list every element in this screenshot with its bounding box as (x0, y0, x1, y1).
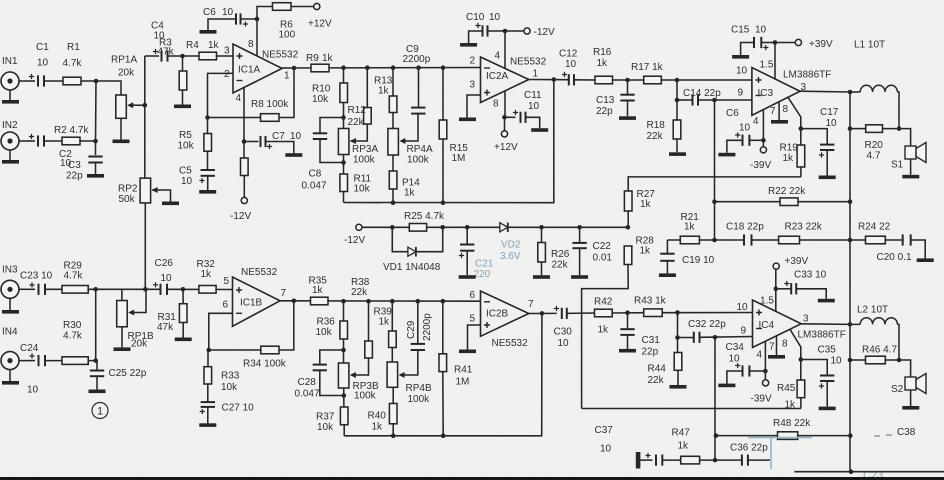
capacitor C12 (569, 74, 574, 85)
svg-text:R47: R47 (672, 428, 691, 439)
dash marks (874, 435, 892, 436)
wire (468, 325, 481, 350)
svg-text:3.6V: 3.6V (500, 251, 521, 262)
junction node (440, 225, 445, 230)
minus input mark (484, 301, 490, 303)
svg-text:C33 10: C33 10 (794, 270, 827, 281)
potentiometer RP4B (387, 362, 398, 387)
resistor R42 (595, 309, 613, 317)
junction node (205, 115, 210, 120)
junction node (675, 335, 680, 340)
wire RP4A wiper (402, 115, 418, 142)
wire (627, 80, 629, 94)
svg-text:-39V: -39V (750, 160, 771, 171)
svg-text:+12V: +12V (308, 19, 332, 30)
polarity + of C1 (29, 74, 34, 79)
svg-text:R12: R12 (348, 105, 367, 116)
wire (182, 90, 184, 105)
inductor L1 (860, 85, 897, 92)
wire (504, 91, 506, 117)
resistor R35 (311, 297, 329, 305)
wire (466, 227, 468, 244)
wire (700, 459, 742, 461)
svg-text:1k: 1k (783, 153, 795, 164)
wire pin9 row (698, 99, 752, 101)
capacitor C27 (201, 402, 215, 407)
wire (776, 336, 778, 355)
svg-text:C18 22p: C18 22p (726, 222, 764, 233)
wire (613, 79, 644, 81)
svg-text:5: 5 (470, 314, 476, 325)
junction node (341, 299, 346, 304)
svg-text:IN3: IN3 (2, 265, 18, 276)
junction node (552, 77, 557, 82)
connector IN4 (1, 352, 19, 370)
svg-text:1k: 1k (597, 58, 609, 69)
resistor R9 (311, 64, 329, 72)
ground (902, 175, 919, 179)
svg-text:C37: C37 (595, 425, 614, 436)
svg-text:R40: R40 (368, 411, 387, 422)
capacitor C31 (620, 329, 634, 335)
svg-text:R18: R18 (647, 120, 666, 131)
resistor R24 (866, 236, 886, 244)
resistor R43 (644, 309, 663, 317)
wire (121, 289, 123, 300)
terminal -12V (241, 197, 247, 203)
junction node (848, 322, 853, 327)
wire feedback column (714, 100, 716, 240)
terminal +39V (773, 263, 779, 269)
plus input mark (484, 322, 490, 328)
svg-text:C22: C22 (593, 241, 612, 252)
power amp IC4 (753, 300, 802, 348)
svg-text:C13: C13 (596, 95, 615, 106)
ground (819, 176, 836, 180)
ground (819, 407, 836, 411)
power amp IC3 (752, 68, 800, 116)
capacitor C18 (744, 234, 752, 245)
wire (796, 289, 826, 299)
op-amp IC1A (233, 44, 282, 93)
wire (627, 101, 629, 117)
ground (2, 160, 19, 164)
ground (571, 275, 588, 279)
ground (2, 310, 19, 314)
svg-text:1k: 1k (379, 317, 391, 328)
svg-text:2200p: 2200p (422, 313, 433, 341)
ground (200, 30, 217, 34)
svg-text:IN4: IN4 (2, 327, 18, 338)
svg-text:0.01: 0.01 (593, 253, 613, 264)
svg-text:IN2: IN2 (2, 120, 18, 131)
svg-text:1: 1 (284, 71, 290, 82)
potentiometer RP2 (140, 178, 151, 203)
capacitor C37 (656, 455, 662, 466)
svg-text:C17: C17 (820, 107, 839, 118)
junction node (540, 311, 545, 316)
capacitor C32 (694, 332, 700, 343)
wire (256, 19, 258, 56)
svg-text:LM3886TF: LM3886TF (783, 70, 831, 81)
ground (533, 275, 550, 279)
potentiometer RP3A (338, 129, 349, 155)
svg-text:RP3A: RP3A (352, 144, 378, 155)
svg-text:+12V: +12V (494, 142, 518, 153)
resistor R32 (199, 286, 216, 294)
wire (442, 68, 444, 120)
wire (801, 323, 851, 326)
ground (174, 105, 191, 109)
svg-text:C30: C30 (554, 327, 573, 338)
capacitor C8 (313, 133, 327, 139)
resistor R41 (439, 354, 447, 372)
junction node (390, 299, 395, 304)
wire (343, 425, 345, 436)
wire (661, 79, 752, 81)
resistor R20 (866, 125, 883, 133)
svg-text:6: 6 (223, 300, 229, 311)
ground (531, 128, 548, 132)
terminal +12V (314, 3, 320, 9)
svg-text:22p: 22p (596, 106, 613, 117)
resistor R17 (644, 76, 662, 84)
svg-text:R30: R30 (63, 320, 82, 331)
resistor R7 (241, 158, 249, 176)
svg-text:C15: C15 (731, 25, 750, 36)
wire (207, 118, 209, 134)
svg-text:1k: 1k (312, 285, 324, 296)
wire (749, 370, 765, 372)
junction node (712, 98, 717, 103)
resistor R4 (199, 52, 217, 60)
junction node (849, 469, 854, 474)
svg-text:C14 22p: C14 22p (683, 88, 721, 99)
capacitor C34 (743, 365, 750, 376)
junction node (341, 65, 346, 70)
ground (917, 258, 934, 262)
svg-text:10k: 10k (221, 382, 238, 393)
svg-text:8: 8 (783, 104, 789, 115)
junction node (242, 139, 247, 144)
resistor R3 (179, 71, 187, 90)
capacitor C7 (261, 136, 266, 147)
svg-text:C35: C35 (818, 345, 837, 356)
svg-text:-12V: -12V (534, 27, 555, 38)
svg-text:C3: C3 (68, 160, 81, 171)
junction node (675, 78, 680, 83)
svg-text:C11: C11 (524, 90, 542, 101)
resistor R2 (62, 137, 80, 145)
polarity + of C26 (153, 282, 158, 287)
svg-text:22k: 22k (647, 131, 664, 142)
svg-text:R20: R20 (865, 140, 884, 151)
wire blue artifact (770, 438, 772, 470)
wire (351, 358, 369, 375)
ground (459, 275, 476, 279)
junction node (93, 358, 98, 363)
capacitor C13 (620, 95, 634, 101)
ground (768, 355, 785, 359)
wire RP1B wiper (130, 289, 146, 312)
svg-text:C32 22p: C32 22p (688, 319, 726, 330)
svg-text:R46 4.7: R46 4.7 (862, 345, 897, 356)
wire (800, 90, 850, 93)
svg-text:L1 10T: L1 10T (854, 40, 885, 51)
wire (19, 288, 35, 290)
polarity + of C23 (29, 282, 34, 287)
svg-text:S2: S2 (891, 384, 904, 395)
svg-text:C1: C1 (36, 42, 49, 53)
svg-text:100: 100 (279, 30, 296, 41)
junction node (897, 126, 902, 131)
wire (676, 80, 678, 100)
potentiometer RP3B (338, 363, 349, 388)
ground (459, 350, 476, 354)
wire (208, 19, 236, 30)
wire (850, 91, 860, 93)
svg-text:C8: C8 (309, 169, 322, 180)
wire (392, 189, 394, 203)
svg-text:10: 10 (558, 338, 570, 349)
junction node (365, 65, 370, 70)
connector IN3 (1, 280, 19, 298)
resistor R38 (365, 341, 373, 358)
svg-text:R8 100k: R8 100k (251, 99, 289, 110)
wire (541, 262, 543, 275)
svg-text:R45: R45 (777, 383, 796, 394)
wire (343, 388, 345, 407)
wire feedback column (714, 337, 716, 460)
svg-text:R41: R41 (454, 365, 473, 376)
svg-text:220: 220 (474, 269, 491, 280)
ground (460, 43, 477, 47)
junction node (143, 287, 148, 292)
junction node (255, 17, 260, 22)
resistor R15 (439, 120, 447, 139)
svg-text:100k: 100k (353, 155, 376, 166)
capacitor C35 (820, 376, 834, 382)
junction node (799, 357, 804, 362)
svg-text:22k: 22k (351, 287, 368, 298)
wire (121, 327, 123, 348)
polarity + of C15 (763, 45, 768, 50)
svg-text:22p: 22p (66, 171, 83, 182)
svg-text:-39V: -39V (751, 394, 772, 405)
wire (44, 81, 121, 95)
capacitor C30 (562, 308, 567, 319)
wire rail (282, 67, 481, 70)
junction node (675, 98, 680, 103)
svg-text:10: 10 (27, 385, 39, 396)
resistor R27 (624, 191, 632, 211)
svg-text:10: 10 (528, 101, 540, 112)
svg-text:1.5: 1.5 (760, 60, 774, 71)
capacitor C9 (411, 108, 425, 114)
svg-text:10: 10 (181, 176, 193, 187)
wire (320, 139, 344, 163)
wire (209, 313, 233, 350)
svg-text:100k: 100k (407, 155, 430, 166)
polarity + of C7 (267, 144, 272, 149)
wire (392, 68, 394, 129)
terminal -12V (356, 224, 362, 230)
wire volume spine (144, 56, 146, 178)
polarity + of C30 (554, 306, 559, 311)
sheet number mark (92, 403, 108, 419)
minus input mark (236, 312, 242, 314)
wire (826, 381, 828, 407)
wire (885, 360, 910, 377)
plus input mark (236, 287, 242, 293)
svg-text:4.7k: 4.7k (63, 58, 83, 69)
svg-text:R42: R42 (594, 297, 613, 308)
svg-text:10: 10 (222, 7, 234, 18)
wire (19, 140, 35, 142)
wire (776, 288, 791, 290)
minus input mark (484, 67, 490, 69)
svg-text:1k: 1k (640, 246, 652, 257)
polarity + of C37 (645, 453, 650, 458)
svg-text:+39V: +39V (785, 256, 809, 267)
svg-text:C27 10: C27 10 (222, 403, 255, 414)
junction node (712, 199, 717, 204)
polarity + of C34 (735, 363, 740, 368)
wire (627, 335, 629, 349)
wire blue artifact (748, 437, 812, 439)
ground (89, 390, 106, 394)
minus input mark (756, 328, 762, 330)
junction node (341, 115, 346, 120)
ground (199, 190, 216, 194)
svg-text:4.7k: 4.7k (64, 271, 84, 282)
svg-text:1k: 1k (598, 325, 610, 336)
wire (417, 301, 419, 343)
wire (9, 90, 11, 100)
wire (778, 102, 780, 120)
svg-text:-12V: -12V (230, 211, 251, 222)
wire (207, 384, 209, 402)
ground (718, 384, 735, 388)
svg-text:10: 10 (600, 444, 612, 455)
wire (320, 370, 344, 395)
wire (243, 176, 245, 198)
wire (95, 81, 98, 141)
wire (677, 370, 679, 385)
wire (850, 359, 866, 361)
svg-text:1k: 1k (208, 40, 220, 51)
capacitor C33 (791, 283, 796, 294)
junction node (342, 393, 347, 398)
svg-text:R34 100k: R34 100k (243, 359, 287, 370)
svg-text:1M: 1M (452, 153, 466, 164)
svg-text:22k: 22k (348, 117, 365, 128)
svg-text:4: 4 (757, 350, 763, 361)
ground (771, 120, 788, 124)
wire (505, 116, 516, 118)
svg-text:4: 4 (236, 93, 242, 104)
wire (207, 350, 209, 367)
wire (392, 424, 394, 436)
wire (662, 459, 680, 461)
svg-text:1: 1 (97, 406, 103, 418)
wire (207, 176, 209, 190)
polarity + of C21 (459, 253, 464, 258)
svg-text:+39V: +39V (809, 39, 833, 50)
ground (114, 347, 131, 351)
capacitor C26 (161, 284, 168, 295)
svg-text:S1: S1 (891, 160, 904, 171)
junction node (181, 287, 186, 292)
border line (0, 477, 944, 480)
minus input mark (756, 95, 762, 97)
wire (392, 387, 394, 403)
capacitor C24 (39, 355, 46, 366)
wire (45, 288, 160, 290)
junction node (503, 29, 508, 34)
svg-text:R25 4.7k: R25 4.7k (404, 211, 445, 222)
resistor R13 (389, 96, 397, 113)
svg-text:C34: C34 (726, 342, 745, 353)
svg-text:R10: R10 (312, 84, 331, 95)
svg-text:R2 4.7k: R2 4.7k (54, 125, 89, 136)
svg-text:10: 10 (831, 356, 843, 367)
capacitor C36 (742, 455, 748, 466)
svg-text:10: 10 (729, 354, 741, 365)
wire (897, 324, 899, 360)
junction node (366, 299, 371, 304)
junction node (712, 238, 717, 243)
junction node (714, 433, 719, 438)
wire (145, 55, 159, 57)
svg-text:NE5532: NE5532 (510, 57, 547, 68)
svg-text:1M: 1M (456, 377, 470, 388)
svg-text:R4: R4 (186, 40, 199, 51)
junction node (539, 225, 544, 230)
plus input mark (484, 90, 490, 96)
resistor R22 (780, 198, 798, 206)
polarity + of C27 (200, 409, 205, 414)
junction node (465, 225, 470, 230)
svg-text:10: 10 (290, 131, 302, 142)
wire (727, 140, 743, 153)
junction node (577, 225, 582, 230)
junction node (799, 126, 804, 131)
svg-text:50k: 50k (119, 194, 136, 205)
wire (741, 43, 754, 56)
polarity + of C4 (153, 49, 158, 54)
svg-text:IC1A: IC1A (238, 65, 261, 76)
wire (666, 261, 668, 274)
resistor R23 (779, 236, 800, 244)
polarity + of C10 (475, 23, 480, 28)
svg-text:C29: C29 (406, 320, 417, 339)
svg-text:RP4B: RP4B (406, 383, 432, 394)
ground (87, 174, 104, 178)
svg-text:R1: R1 (67, 42, 80, 53)
svg-text:4.7: 4.7 (867, 151, 881, 162)
wire (627, 211, 629, 227)
junction node (207, 348, 212, 353)
wire (826, 150, 828, 176)
speaker S2 (905, 374, 926, 394)
op-amp IC2A (481, 57, 529, 103)
svg-text:C38: C38 (897, 427, 916, 438)
svg-text:10: 10 (826, 118, 838, 129)
svg-text:RP2: RP2 (118, 184, 138, 195)
wire (241, 18, 258, 20)
wire (467, 95, 481, 118)
